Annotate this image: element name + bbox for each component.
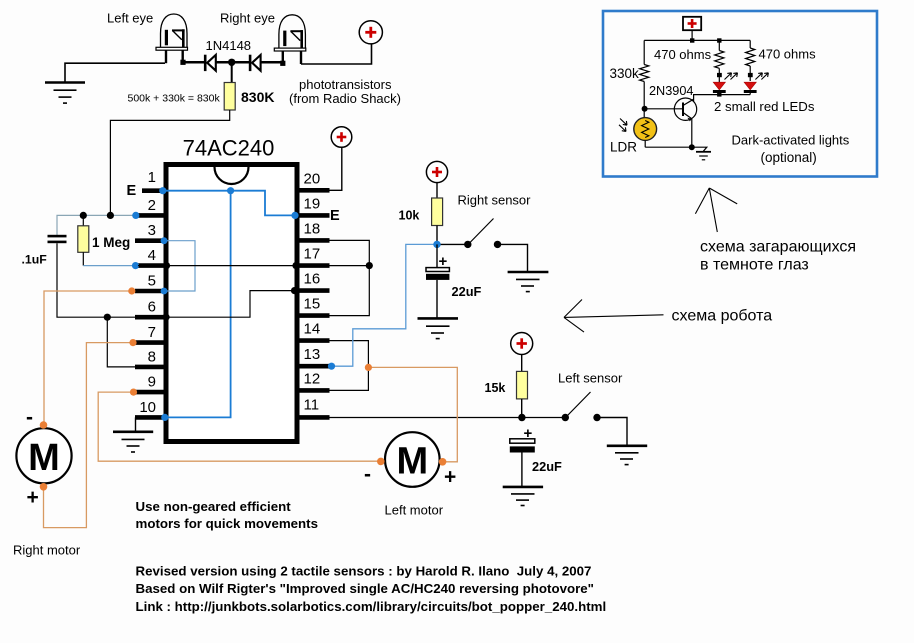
wire: pin8 to pin6 net [107,317,135,367]
svg-text:17: 17 [304,246,321,263]
node: pin 19 (blue) [291,212,298,219]
pin 13 [297,364,330,369]
svg-text:4: 4 [148,247,156,264]
wire: node to 22uF [436,244,438,267]
pin 18 [297,238,330,243]
svg-text:18: 18 [304,220,321,237]
wire: pin14-pin12 U link [330,341,369,391]
node: junction pin6/pin8 [104,314,111,321]
svg-text:(from Radio Shack): (from Radio Shack) [289,91,401,106]
pin 4 [135,263,166,268]
wire: orange pin7 to right motor bottom [44,343,134,528]
capacitor 22uF (left sensor) [510,425,535,453]
svg-text:схема загарающихся: схема загарающихся [700,239,856,256]
terminal: left motor + (right) [439,458,447,466]
svg-text:74AC240: 74AC240 [183,136,275,161]
svg-text:2N3904: 2N3904 [649,84,693,98]
wire: 830K to pin 2 net [110,110,229,215]
svg-text:M: M [396,441,428,483]
svg-text:6: 6 [148,299,156,316]
pin 5 [135,289,166,294]
svg-text:19: 19 [304,195,321,212]
motor: Right motor [16,428,71,483]
pin 12 [297,388,330,393]
terminal: right motor + (bottom) [40,483,48,491]
node: pin 13 (blue) [328,363,335,370]
node: pin 4 (blue) [132,262,139,269]
LED anode junction squares [717,73,722,77]
svg-text:Left eye: Left eye [107,11,153,26]
power +V (inset, square) [683,17,701,30]
wire: thin line pin4 to pin17 across IC [138,265,297,267]
wire: inset top rail [644,30,750,40]
node: pin 5 (blue) [161,288,168,295]
svg-text:1: 1 [148,169,156,186]
wire [436,280,438,319]
svg-text:1 Meg: 1 Meg [92,235,130,250]
node: pin 1 (blue) [159,187,166,194]
switch: left sensor contact B [593,414,600,421]
node: junction 1Meg/pin2 [80,212,87,219]
wire [521,453,523,487]
svg-text:-: - [26,406,33,429]
svg-text:Based on Wilf Rigter's "Improv: Based on Wilf Rigter's "Improved single … [136,581,594,596]
resistor 830K [224,83,235,111]
svg-text:Dark-activated lights: Dark-activated lights [732,132,850,147]
diode D1 1N4148 [204,55,216,71]
wire: orange pin5 to right motor top [44,291,132,423]
svg-text:Use non-geared efficient: Use non-geared efficient [136,499,292,514]
node: pin 5 (orange) [128,287,135,294]
node: junction pin17/18/15 [366,262,373,269]
svg-text:22uF: 22uF [452,284,482,299]
svg-text:7: 7 [148,324,156,341]
svg-text:E: E [330,208,340,224]
wire: emitter to bottom rail [691,119,693,148]
svg-text:Right sensor: Right sensor [458,193,532,208]
svg-text:+: + [444,466,456,489]
pin 2 [135,213,166,218]
svg-text:15: 15 [304,296,321,313]
ground (right sensor cap) [418,318,459,338]
ground (pin 10) [113,432,153,452]
svg-text:14: 14 [304,321,321,338]
svg-text:500k + 330k = 830k: 500k + 330k = 830k [128,93,221,105]
wire: 1 Meg top lead [82,215,84,225]
wire: Z net pin16 to pin6 across IC [166,291,295,318]
wire: pin 10 ground stem [113,417,136,431]
node: pin 6 IC edge [162,314,169,321]
pin 9 [135,390,166,395]
wire [231,62,233,82]
resistor 470 ohms right (zigzag) [746,48,755,66]
pin 6 [135,315,166,320]
ground (left sensor cap) [503,487,543,506]
LED D3 emission arrows [725,73,738,80]
wire [749,66,751,81]
svg-text:motors for quick movements: motors for quick movements [136,516,319,531]
node: base/LDR junction [642,106,648,112]
svg-text:5: 5 [148,273,156,290]
terminal: left motor - (left) [377,458,385,466]
pin 20 [297,188,330,193]
arrow: to inset (up arrow) [695,188,737,232]
svg-text:.1uF: .1uF [22,253,48,267]
switch lever (right sensor) [470,219,494,243]
svg-text:в темноте глаз: в темноте глаз [700,257,809,274]
ground (inset) [696,152,711,160]
svg-text:1N4148: 1N4148 [206,38,252,53]
junction square (rail drop) [690,38,694,42]
resistor 330k (zigzag) [640,65,649,82]
wire: blue net pin1 to pin19 [164,191,295,216]
svg-text:16: 16 [304,271,321,288]
svg-text:20: 20 [304,170,321,187]
wire: LED cathode rail to collector [694,93,751,102]
wire: blue pin13 to right sensor node [332,244,438,366]
wire: ground to left eye [65,63,165,82]
node: blue junction pin1 line [227,187,234,194]
svg-text:10: 10 [139,399,156,416]
wire: pin 2 net to .1uF and 1 Meg [57,215,136,235]
wire: rail to 330k [643,40,645,64]
pin 15 [297,313,330,318]
transistor Q1 2N3904 [645,98,697,121]
node: pin 9 (orange) [130,389,137,396]
pin 3 [135,238,166,243]
svg-text:3: 3 [148,222,156,239]
wire: blue net pin3 to pin5 [164,241,195,291]
wire: rail to right 470 [749,40,751,48]
wire [216,61,249,64]
wire: inset bottom rail [645,140,707,151]
svg-text:(optional): (optional) [761,150,817,165]
svg-text:12: 12 [304,370,321,387]
svg-text:схема робота: схема робота [672,308,773,325]
wire: pin 11 line to left sensor switch [330,417,566,419]
svg-text:470 ohms: 470 ohms [759,47,817,62]
wire: orange pin9 to left motor - [98,392,380,461]
svg-text:Link : http://junkbots.solarbo: Link : http://junkbots.solarbotics.com/l… [136,599,607,614]
capacitor 22uF (right sensor) [426,253,449,280]
wire: switch B to ground [597,418,627,446]
resistor 15k [517,371,528,399]
power +V (phototransistors) [359,21,382,44]
pin 19 [297,213,330,218]
wire [718,68,720,82]
svg-text:E: E [127,183,137,199]
svg-text:LDR: LDR [610,140,637,155]
wire: blue 1Meg to pin 4 [83,265,135,267]
wire [521,399,523,418]
pin 8 [135,365,166,370]
svg-text:13: 13 [304,346,321,363]
phototransistor: Right eye [274,15,306,64]
svg-text:Right eye: Right eye [220,11,275,26]
node: left sensor [518,414,525,421]
svg-text:Right motor: Right motor [13,543,81,558]
wire: node to switch [437,243,468,245]
svg-text:2: 2 [148,197,156,214]
svg-text:+: + [27,486,39,509]
resistor 10k [432,198,443,226]
arrow: to robot schematic (left arrow) [564,300,664,333]
node: pin 3 (blue) [161,237,168,244]
wire: rail to left 470 [718,40,720,50]
wire: switch B to ground [498,244,528,272]
pin 1 [142,188,166,193]
node: pin 7 (orange) [129,339,136,346]
wire [436,183,438,198]
pin 17 [297,263,330,268]
wire [183,61,205,64]
pin 16 [297,288,330,293]
pin 10 [135,415,166,420]
svg-text:-: - [364,463,371,486]
power +V (left sensor) [511,333,533,355]
node: right sensor (blue) [433,241,440,248]
ground (top left) [45,83,85,104]
node: pin 10 (blue) [161,414,168,421]
svg-text:Left sensor: Left sensor [558,371,623,386]
LED D3 (left red LED) [713,82,726,93]
capacitor .1uF [48,235,67,243]
svg-text:Revised version using 2 tactil: Revised version using 2 tactile sensors … [136,564,592,579]
pin 7 [135,340,166,345]
node: emitter/ground junction [689,144,695,150]
svg-text:470 ohms: 470 ohms [654,47,712,62]
switch lever (left sensor) [568,392,591,416]
wire: 330k to base node [643,82,645,119]
wire: pin17 to U junction [330,265,370,267]
junction: right eye base [280,61,285,66]
wire: blue net pin1 to pin10 [165,191,231,418]
svg-text:22uF: 22uF [532,459,562,474]
inset box: dark-activated lights circuit [603,11,877,177]
LED D4 emission arrows [755,73,768,80]
node: pin 16 IC edge [291,287,298,294]
switch: right sensor contact A [464,241,471,248]
ground (right sensor switch) [508,272,549,292]
resistor 1 Meg [78,226,89,253]
pin 14 [297,338,330,343]
node: pin14/12 (orange) [365,364,372,371]
svg-text:830K: 830K [241,89,274,105]
node: junction 830K/pin2 [107,212,114,219]
phototransistor: Left eye [156,14,188,63]
svg-text:8: 8 [148,348,156,365]
junction: left eye emitter [180,60,185,65]
motor: Left motor [385,432,440,487]
wire [436,226,438,245]
svg-text:2 small red LEDs: 2 small red LEDs [714,99,815,114]
resistor 470 ohms left (zigzag) [715,51,724,69]
LDR (yellow) [634,118,657,141]
LDR light arrows [619,119,627,132]
wire: pin18-pin15 U link [330,240,370,315]
svg-text:9: 9 [148,374,156,391]
wire: pin 20 to +V [330,148,342,191]
node: pin 4 IC edge [163,262,170,269]
node: cathode rail left LED [717,93,721,97]
node: eyes junction [228,59,235,66]
diode D2 1N4148 [249,55,261,71]
pin 11 [297,415,330,420]
wire: 1 Meg bottom lead [82,252,84,265]
switch: left sensor contact A [562,414,569,421]
ground (left sensor switch) [607,446,647,465]
switch: right sensor contact B [494,241,501,248]
svg-text:Left motor: Left motor [385,503,444,518]
svg-text:M: M [28,437,60,479]
terminal: right motor - (top) [40,421,48,429]
wire [261,61,281,64]
wire: .1uF bottom to pin 6 line [57,243,135,317]
IC U1 74AC240 [166,165,297,442]
LED D4 (right red LED) [744,82,757,93]
power +V (pin 20) [331,127,352,148]
svg-text:330k: 330k [610,66,640,81]
svg-text:10k: 10k [399,209,420,223]
svg-text:15k: 15k [485,381,506,395]
svg-text:phototransistors: phototransistors [299,77,392,92]
svg-text:11: 11 [304,397,320,414]
node: pin 2 (blue) [132,212,139,219]
power +V (right sensor) [426,161,447,182]
node: pin 17 IC edge [292,262,299,269]
wire: orange pin14/12 to left motor + [368,367,457,461]
wire [301,44,372,64]
wire [521,355,523,372]
